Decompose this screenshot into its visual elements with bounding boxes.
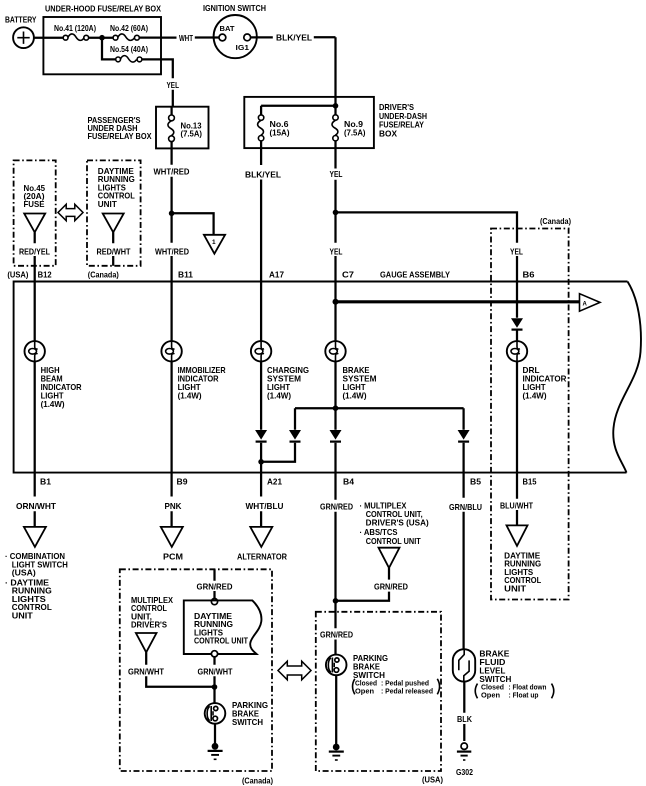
svg-text:BOX: BOX [379, 129, 398, 138]
wire fuse13 to B11 [170, 142, 172, 214]
wire battery to under-hood box [34, 37, 63, 39]
bulb DRL indicator light [507, 341, 567, 401]
svg-text:BAT: BAT [220, 24, 236, 33]
svg-text:IGNITION SWITCH: IGNITION SWITCH [203, 4, 266, 13]
equivalence arrow top [58, 204, 83, 220]
usa box lower [316, 612, 441, 771]
diode on B6 column [511, 318, 523, 329]
equivalence arrow bottom [278, 661, 311, 680]
junction YEL branch [333, 210, 339, 216]
svg-text:ALTERNATOR: ALTERNATOR [237, 552, 287, 561]
svg-text:GRN/WHT: GRN/WHT [128, 667, 164, 676]
svg-text:(1.4W): (1.4W) [178, 392, 202, 401]
svg-text:GRN/BLU: GRN/BLU [449, 503, 482, 512]
wire B15 down [516, 473, 518, 526]
ignition switch [203, 4, 266, 58]
svg-text:BLK/YEL: BLK/YEL [276, 33, 312, 42]
connector triangle 1 [204, 235, 225, 254]
svg-text:UNIT: UNIT [98, 200, 117, 209]
wire triangle to junction [336, 568, 390, 601]
wire branch to connector 1 [172, 213, 214, 234]
wire fuse41 to fuse42 [89, 37, 114, 39]
svg-text:B15: B15 [523, 477, 537, 486]
svg-text:FUSE/RELAY: FUSE/RELAY [379, 121, 425, 130]
destination list B1 [5, 552, 68, 621]
multiplex control unit label [131, 596, 174, 630]
svg-text:CONTROL UNIT,: CONTROL UNIT, [366, 510, 423, 519]
svg-text:B5: B5 [470, 477, 482, 486]
wire branch YEL to B6 [336, 212, 518, 281]
svg-text:B9: B9 [177, 477, 189, 486]
svg-text:(USA): (USA) [12, 569, 36, 578]
daytime running lights control unit box (canada top) [87, 160, 141, 265]
svg-text:1: 1 [212, 239, 216, 246]
svg-text:GRN/RED: GRN/RED [320, 630, 353, 639]
bulb high beam indicator light [25, 341, 82, 409]
node terminal bottom of DRL unit [211, 651, 217, 657]
svg-text:(1.4W): (1.4W) [343, 392, 367, 401]
svg-text:UNIT: UNIT [12, 612, 33, 621]
wire inside driver's box [261, 96, 335, 115]
wire multiplex to junction [146, 652, 214, 686]
svg-text:B6: B6 [523, 270, 536, 279]
under-hood fuse/relay box [43, 5, 161, 75]
battery [5, 16, 37, 49]
passenger's under-dash fuse/relay box [88, 107, 209, 149]
svg-text:No.42 (60A): No.42 (60A) [110, 24, 148, 33]
junction under-hood [99, 35, 105, 41]
wire No.45 to B12 [34, 232, 36, 281]
diode on left leg [289, 430, 301, 442]
svg-text:(15A): (15A) [270, 128, 290, 137]
driver's under-dash fuse/relay box [244, 97, 427, 148]
svg-text:(1.4W): (1.4W) [267, 392, 291, 401]
wire switch to ground usa [335, 675, 337, 744]
svg-text:· MULTIPLEX: · MULTIPLEX [360, 501, 408, 510]
fuse No.9 (7.5A) [332, 115, 366, 141]
svg-text:YEL: YEL [167, 81, 180, 90]
svg-text:FUSE: FUSE [24, 200, 46, 209]
daytime running lights control unit box (canada lower) [184, 600, 262, 654]
parking brake switch usa [326, 654, 388, 680]
svg-text:BATTERY: BATTERY [5, 16, 37, 25]
connector arrow A [580, 294, 601, 312]
wire brake fluid to ground [463, 682, 465, 741]
connector triangle B4 branch [379, 548, 400, 568]
wire fuse54 to YEL vertical [142, 59, 173, 106]
wire A21 to alternator [260, 473, 262, 527]
svg-text:IG1: IG1 [236, 43, 250, 52]
wire ignition to driver's box [251, 37, 336, 96]
wire No.9 to C7 [334, 141, 336, 282]
svg-text:BLK: BLK [457, 715, 472, 724]
connector triangle B15 [507, 525, 528, 546]
svg-text:G302: G302 [456, 768, 473, 777]
svg-text:Open: Open [481, 690, 500, 699]
wire C7/B4 column [334, 282, 336, 473]
wire left leg to A21 [261, 408, 295, 462]
svg-text:UNIT: UNIT [504, 585, 526, 594]
parking brake switch canada [205, 701, 268, 727]
bulb immobilizer indicator light [161, 341, 225, 401]
wire B5 down [462, 473, 464, 650]
ground canada [208, 743, 223, 759]
svg-text:UNDER-HOOD FUSE/RELAY BOX: UNDER-HOOD FUSE/RELAY BOX [45, 5, 162, 14]
diode on B5 leg [458, 430, 470, 442]
connector triangle A21 [250, 527, 272, 547]
wire B4 down [334, 473, 336, 655]
svg-text:WHT/RED: WHT/RED [155, 247, 189, 256]
wire B6/B15 column [516, 282, 518, 473]
wire daytime RED/WHT [112, 232, 114, 265]
junction A21 [258, 459, 264, 465]
svg-text:(7.5A): (7.5A) [344, 128, 366, 137]
svg-text:YEL: YEL [510, 247, 523, 256]
svg-text:GRN/RED: GRN/RED [197, 582, 233, 591]
canada dash-dot box B15 column [491, 229, 569, 600]
svg-text:CONTROL UNIT: CONTROL UNIT [366, 537, 421, 546]
svg-text:WHT/BLU: WHT/BLU [246, 502, 284, 511]
svg-text:BLU/WHT: BLU/WHT [500, 501, 533, 510]
svg-text:· ABS/TCS: · ABS/TCS [360, 528, 399, 537]
gauge assembly box [14, 270, 641, 472]
svg-text:B4: B4 [343, 477, 355, 486]
wire switch to ground canada [214, 724, 216, 744]
canada box lower [120, 569, 272, 771]
svg-text:No.41 (120A): No.41 (120A) [54, 24, 96, 33]
ground usa [329, 744, 344, 760]
svg-text:SWITCH: SWITCH [232, 718, 263, 727]
svg-text:GRN/RED: GRN/RED [320, 503, 353, 512]
svg-text:ORN/WHT: ORN/WHT [16, 502, 56, 511]
diode on B4 column [330, 430, 342, 442]
bus wire C7 to arrow A [336, 300, 580, 303]
bulb brake system light [325, 341, 376, 401]
wire B11 column [170, 282, 172, 473]
destination list B4 [360, 501, 429, 546]
svg-text:(1.4W): (1.4W) [41, 400, 65, 409]
wire A17/A21 column [260, 282, 262, 473]
wire B12 column [34, 282, 36, 473]
wire junction to parking brake switch [213, 687, 215, 703]
brake fluid level switch [453, 649, 512, 684]
wire right leg to B5 [462, 408, 464, 472]
fuse No.54 (40A) [110, 45, 148, 62]
svg-text:YEL: YEL [330, 247, 343, 256]
svg-text:(Canada): (Canada) [88, 270, 119, 279]
svg-text:: Pedal released: : Pedal released [381, 686, 433, 695]
svg-text:GRN/RED: GRN/RED [374, 582, 408, 591]
junction driver's box [333, 103, 339, 109]
svg-text:BLK/YEL: BLK/YEL [245, 170, 281, 179]
svg-text:A: A [583, 301, 588, 307]
svg-text:PCM: PCM [163, 552, 183, 561]
connector triangle No.45 [24, 214, 45, 233]
svg-text:WHT/RED: WHT/RED [154, 167, 190, 176]
diode on A21 column [255, 430, 267, 442]
svg-text:B11: B11 [178, 270, 194, 279]
fuse No.13 (7.5A) [168, 107, 202, 142]
svg-text:(USA): (USA) [7, 270, 28, 279]
node terminal top of DRL unit [211, 599, 217, 605]
svg-text:(Canada): (Canada) [242, 776, 273, 785]
svg-text:(USA): (USA) [422, 775, 443, 784]
svg-text:A17: A17 [269, 270, 284, 279]
junction B4 [333, 598, 339, 604]
svg-text:RED/WHT: RED/WHT [97, 247, 131, 256]
wire B11 lower [170, 213, 172, 281]
contact note parking brake [353, 679, 440, 696]
svg-text:: Float up: : Float up [509, 690, 540, 699]
ground G302 [456, 743, 473, 777]
svg-text:(1.4W): (1.4W) [523, 392, 547, 401]
connector triangle B9 [161, 527, 183, 547]
svg-text:FUSE/RELAY BOX: FUSE/RELAY BOX [88, 132, 153, 141]
svg-text:UNDER-DASH: UNDER-DASH [379, 112, 427, 121]
fuse No.45 (20A) box [14, 160, 56, 265]
fuse No.42 (60A) [110, 24, 148, 40]
junction B11 branch [169, 211, 175, 217]
svg-text:PNK: PNK [165, 502, 182, 511]
svg-text:DRIVER'S: DRIVER'S [131, 621, 168, 630]
svg-text:Open: Open [355, 686, 374, 695]
connector triangle B1 [24, 527, 46, 547]
wire brake branch horizontal [295, 407, 464, 409]
wire B9 to PCM [170, 473, 172, 527]
svg-text:DRIVER'S: DRIVER'S [379, 103, 415, 112]
svg-text:No.54 (40A): No.54 (40A) [110, 45, 148, 54]
junction canada switch [212, 684, 218, 690]
fuse No.6 (15A) [258, 115, 290, 141]
svg-text:WHT: WHT [179, 34, 193, 43]
wire junction to fuse 54 [102, 38, 116, 60]
svg-text:(Canada): (Canada) [540, 217, 571, 226]
connector triangle multiplex canada [136, 633, 157, 652]
svg-text:GRN/WHT: GRN/WHT [198, 667, 233, 676]
svg-text:DRIVER'S (USA): DRIVER'S (USA) [366, 519, 429, 528]
wire fuse42 to ignition switch [139, 36, 219, 38]
wire DRL unit to junction [213, 657, 215, 688]
svg-text:GAUGE ASSEMBLY: GAUGE ASSEMBLY [380, 270, 451, 279]
svg-text:B12: B12 [38, 270, 52, 279]
svg-text:A21: A21 [267, 477, 282, 486]
svg-text:(7.5A): (7.5A) [181, 130, 203, 139]
bulb charging system light [251, 341, 309, 401]
wire GRN/RED canada [213, 569, 215, 598]
junction brake branch [333, 405, 339, 411]
junction bus [333, 299, 339, 305]
fuse No.41 (120A) [54, 24, 96, 40]
wire B1 to combination light switch [34, 473, 36, 527]
svg-text:B1: B1 [40, 477, 52, 486]
wire No.6 to A17 [260, 141, 262, 282]
svg-text:YEL: YEL [330, 170, 343, 179]
connector triangle daytime [103, 214, 124, 233]
contact note brake fluid [475, 683, 554, 700]
svg-text:CONTROL UNIT: CONTROL UNIT [194, 637, 248, 646]
svg-text:C7: C7 [342, 270, 355, 279]
destination daytime running lights control unit [504, 551, 541, 593]
svg-text:RED/YEL: RED/YEL [19, 247, 50, 256]
